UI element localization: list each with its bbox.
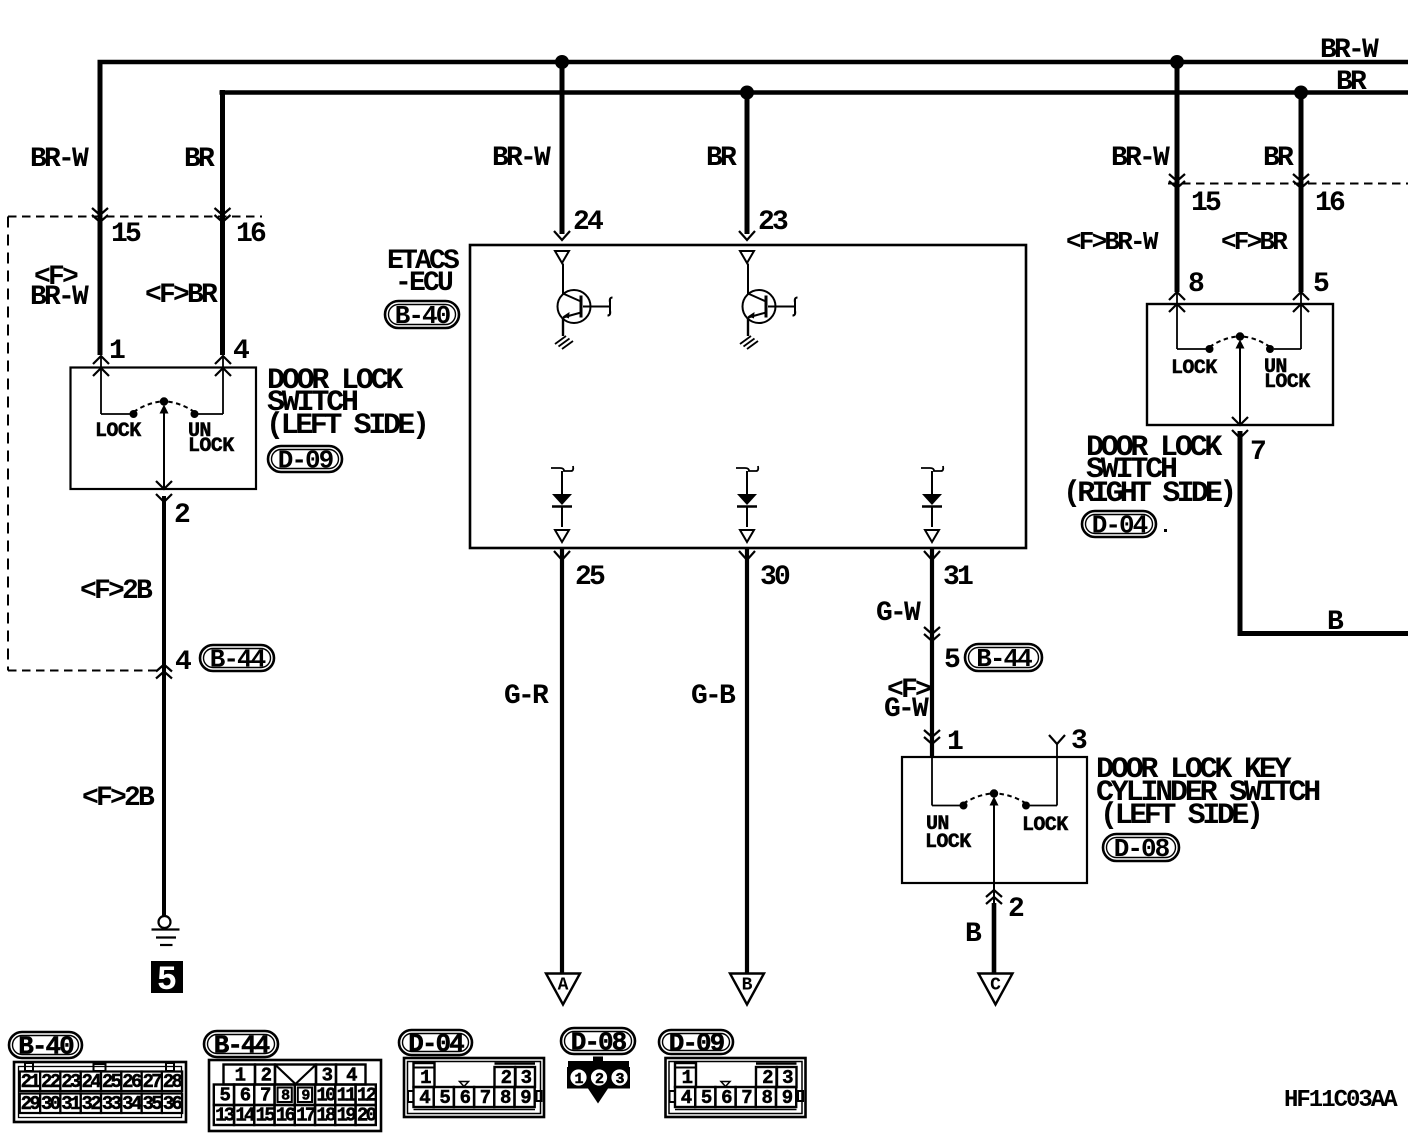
svg-text:16: 16 [276, 1105, 296, 1127]
svg-text:34: 34 [122, 1093, 142, 1115]
svg-text:29: 29 [21, 1093, 41, 1115]
svg-text:2: 2 [595, 1071, 604, 1088]
svg-text:BR-W: BR-W [1111, 143, 1170, 174]
wire 24 end fork [554, 231, 570, 240]
connector D-08 pin diagram [567, 1057, 630, 1104]
connector ref B-40 oval (bottom) [9, 1032, 82, 1062]
key switch wire pin3 internal [1030, 805, 1057, 807]
svg-text:23: 23 [758, 207, 788, 238]
svg-text:<F>BR: <F>BR [145, 280, 218, 311]
connector crossing 4 B-44 [156, 665, 172, 679]
right switch wire pin5 internal [1300, 292, 1302, 349]
key switch dashed arc left [964, 794, 992, 804]
connector ref D-08 oval [1103, 834, 1179, 864]
svg-text:13: 13 [215, 1105, 235, 1127]
connector ref D-08 oval (bottom) [561, 1028, 635, 1058]
svg-text:G-W: G-W [876, 598, 921, 629]
connector ref D-09 oval (bottom) [659, 1029, 733, 1059]
svg-text:LOCK: LOCK [925, 831, 971, 854]
svg-text:2: 2 [1008, 894, 1024, 925]
ETACS-ECU box B-40 [470, 245, 1026, 548]
svg-text:G-R: G-R [504, 681, 549, 712]
svg-text:1: 1 [109, 336, 125, 367]
pin 25 exit fork [554, 551, 570, 560]
svg-text:B-44: B-44 [210, 645, 266, 675]
transistor Q1 [555, 264, 613, 350]
svg-text:28: 28 [163, 1071, 183, 1093]
right switch LOCK contact dot [1206, 345, 1214, 353]
key switch LOCK contact dot [1022, 802, 1030, 810]
svg-text:(RIGHT SIDE): (RIGHT SIDE) [1063, 477, 1233, 511]
svg-text:27: 27 [142, 1071, 162, 1093]
connector ref B-44 oval (left) [200, 645, 274, 675]
svg-text:BR-W: BR-W [30, 144, 89, 175]
svg-text:35: 35 [142, 1093, 162, 1115]
wire 23 end fork [739, 231, 755, 240]
right switch pole arrow [1236, 340, 1245, 349]
svg-text:1: 1 [574, 1071, 583, 1088]
switch wiper dashed arc left [134, 402, 162, 413]
destination triangle A [546, 974, 580, 1005]
svg-text:LOCK: LOCK [188, 435, 234, 458]
svg-text:BR: BR [184, 144, 215, 175]
pin 30 exit fork [739, 551, 755, 560]
svg-text:4: 4 [175, 647, 191, 678]
switch wiper dashed arc right [167, 402, 195, 413]
wire G-B (pin30 to B) [745, 548, 749, 975]
svg-text:31: 31 [61, 1093, 81, 1115]
svg-text:18: 18 [316, 1105, 336, 1127]
svg-text:C: C [990, 976, 1001, 996]
svg-text:B-40: B-40 [18, 1032, 74, 1062]
right switch pole stem wire [1239, 344, 1241, 425]
key switch dashed arc right [997, 794, 1026, 804]
ground symbol [152, 916, 180, 945]
svg-text:(LEFT SIDE): (LEFT SIDE) [266, 409, 427, 443]
connector crossing 15 right [1169, 174, 1185, 188]
svg-text:30: 30 [760, 562, 790, 593]
svg-text:5: 5 [157, 962, 177, 1000]
switch wire pin4 internal [222, 356, 224, 414]
wire BR-W left drop [98, 60, 103, 355]
pin 3 fork [1049, 735, 1065, 744]
diode D3 [921, 466, 943, 542]
svg-text:D-08: D-08 [1114, 834, 1170, 864]
junction dot bus1/wire24 [555, 55, 569, 69]
switch pole stem wire [163, 409, 165, 489]
connector ref D-04 oval (bottom) [399, 1029, 472, 1059]
svg-text:BR: BR [1263, 143, 1294, 174]
connector crossing pin1 D-08 [924, 730, 940, 744]
svg-text:24: 24 [82, 1071, 102, 1093]
switch LOCK contact dot [130, 410, 138, 418]
door lock switch (right side) box [1147, 304, 1333, 425]
speck after D-04 oval [1164, 529, 1167, 532]
wire BR left drop [220, 90, 225, 355]
svg-text:7: 7 [1250, 437, 1265, 468]
svg-text:(LEFT SIDE): (LEFT SIDE) [1100, 799, 1261, 833]
svg-text:3: 3 [615, 1071, 624, 1088]
diode D2 [736, 466, 758, 542]
svg-text:HF11C03AA: HF11C03AA [1284, 1087, 1398, 1114]
svg-text:D-09: D-09 [278, 446, 334, 476]
key switch common pole dot [990, 789, 998, 797]
dashed boundary lower-left horizontal [8, 670, 158, 672]
svg-text:30: 30 [41, 1093, 61, 1115]
svg-text:1: 1 [947, 727, 963, 758]
diode D1 [551, 466, 573, 542]
pin 23 male triangle [740, 251, 754, 263]
svg-text:21: 21 [21, 1071, 41, 1093]
junction dot bus1/right [1170, 55, 1184, 69]
svg-text:25: 25 [575, 562, 605, 593]
svg-text:31: 31 [943, 562, 973, 593]
svg-text:D-09: D-09 [669, 1029, 725, 1059]
connector D-04 pin diagram [404, 1058, 544, 1117]
svg-text:<F>BR-W: <F>BR-W [1066, 227, 1159, 257]
svg-text:G-W: G-W [884, 694, 929, 725]
wire BR-W main bus [98, 60, 1408, 65]
svg-text:19: 19 [337, 1105, 357, 1127]
switch UNLOCK contact dot [191, 410, 199, 418]
wire 24 drop BR-W [560, 62, 565, 234]
svg-text:B-44: B-44 [976, 644, 1032, 674]
svg-text:BR-W: BR-W [1320, 35, 1379, 66]
svg-text:BR-W: BR-W [492, 143, 551, 174]
right switch common pole dot [1236, 332, 1244, 340]
svg-text:12: 12 [357, 1085, 377, 1107]
svg-text:36: 36 [163, 1093, 183, 1115]
dashed boundary top-left horizontal [8, 216, 262, 218]
svg-text:24: 24 [573, 207, 603, 238]
svg-text:BR: BR [706, 143, 737, 174]
svg-text:10: 10 [316, 1085, 336, 1107]
svg-text:BR-W: BR-W [30, 282, 89, 313]
svg-text:25: 25 [102, 1071, 122, 1093]
pin 24 male triangle [555, 251, 569, 263]
junction dot bus2/wire23 [740, 86, 754, 100]
connector crossing 16 right [1293, 174, 1309, 188]
svg-text:8: 8 [1188, 269, 1204, 300]
wire 23 drop BR [745, 93, 750, 235]
switch common pole dot [160, 397, 168, 405]
connector ref B-44 oval (mid) [965, 644, 1042, 674]
svg-text:15: 15 [111, 219, 141, 250]
switch pole arrow [160, 405, 169, 414]
pin 2 exit mark [156, 481, 172, 502]
pin 3 stub wire [1056, 744, 1058, 806]
svg-text:4: 4 [233, 336, 249, 367]
junction dot bus2/right [1294, 86, 1308, 100]
svg-text:33: 33 [102, 1093, 122, 1115]
right switch dashed arc left [1210, 337, 1238, 348]
svg-text:17: 17 [296, 1105, 316, 1127]
svg-text:15: 15 [256, 1105, 276, 1127]
svg-text:B: B [742, 976, 753, 996]
dashed boundary right horizontal [1168, 183, 1408, 185]
svg-text:<F>2B: <F>2B [82, 783, 155, 814]
pin 31 exit fork [924, 551, 940, 560]
svg-text:<F>2B: <F>2B [80, 576, 153, 607]
right switch wire pin8 internal [1176, 292, 1178, 349]
key switch UNLOCK contact dot [960, 802, 968, 810]
wire BR right drop [1299, 93, 1304, 293]
destination triangle C [979, 974, 1013, 1005]
connector ref D-09 oval [268, 446, 342, 476]
svg-text:LOCK: LOCK [95, 420, 141, 443]
wire pin7 to B (L-shape) [1240, 431, 1408, 634]
wire BR main bus [220, 90, 1408, 95]
connector ref B-40 oval (ETACS) [385, 301, 459, 331]
svg-text:5: 5 [1313, 269, 1329, 300]
pin 5 entry mark [1293, 292, 1309, 312]
wire BR-W right drop [1175, 62, 1180, 292]
connector ref B-44 oval (bottom) [204, 1031, 278, 1061]
svg-text:26: 26 [122, 1071, 142, 1093]
wire B (pin2 to C) [992, 903, 997, 975]
svg-text:D-04: D-04 [408, 1029, 464, 1059]
wire G-W (pin31 upper) [930, 548, 934, 757]
door lock switch (left side) box [71, 368, 257, 490]
svg-text:D-04: D-04 [1092, 511, 1148, 541]
svg-text:LOCK: LOCK [1264, 371, 1310, 394]
wire G-R (pin25 to A) [560, 548, 564, 975]
connector crossing on wire 15 [92, 208, 108, 222]
svg-text:15: 15 [1191, 188, 1221, 219]
key switch pole arrow [990, 797, 999, 806]
connector crossing 5 B-44 (wire31) [924, 627, 940, 641]
svg-text:5: 5 [944, 645, 960, 676]
switch wire pin1 internal [100, 356, 102, 414]
connector crossing on wire 16 [215, 208, 231, 222]
pin 8 entry mark [1169, 292, 1185, 312]
svg-text:23: 23 [61, 1071, 81, 1093]
svg-text:A: A [558, 976, 569, 996]
svg-text:-ECU: -ECU [395, 268, 453, 299]
svg-text:11: 11 [337, 1085, 357, 1107]
svg-text:14: 14 [235, 1105, 255, 1127]
svg-text:LOCK: LOCK [1022, 814, 1068, 837]
svg-text:D-08: D-08 [571, 1028, 627, 1058]
svg-text:16: 16 [1315, 188, 1345, 219]
destination triangle B [730, 974, 764, 1005]
svg-text:<F>BR: <F>BR [1221, 227, 1288, 257]
svg-text:LOCK: LOCK [1171, 357, 1217, 380]
svg-text:BR: BR [1336, 67, 1367, 98]
key switch wire pin1 internal [931, 757, 933, 806]
pin 2 exit mark (key switch) [993, 883, 995, 904]
ground ref 5 black box [151, 961, 183, 1000]
svg-text:2: 2 [174, 500, 190, 531]
svg-text:16: 16 [236, 219, 266, 250]
pin 4 entry mark [215, 356, 231, 376]
connector ref D-04 oval [1082, 511, 1156, 541]
dashed boundary left vertical [7, 217, 9, 671]
pin 7 exit mark [1232, 417, 1248, 438]
svg-text:B-40: B-40 [395, 301, 451, 331]
key switch pole stem wire [993, 801, 995, 883]
svg-text:22: 22 [41, 1071, 61, 1093]
connector B-44 pin diagram [209, 1060, 381, 1131]
svg-text:32: 32 [82, 1093, 102, 1115]
right switch UNLOCK contact dot [1266, 345, 1274, 353]
pin 1 entry mark [93, 356, 109, 376]
right switch dashed arc right [1243, 337, 1270, 348]
connector B-40 pin diagram [14, 1062, 186, 1122]
svg-text:G-B: G-B [691, 681, 736, 712]
wire <F>2B upper segment [162, 496, 166, 916]
connector D-09 pin diagram [666, 1058, 806, 1117]
svg-text:B-44: B-44 [214, 1031, 270, 1061]
svg-text:20: 20 [357, 1105, 377, 1127]
svg-text:3: 3 [1071, 726, 1087, 757]
transistor Q2 [740, 264, 798, 350]
door lock key cylinder switch box [902, 757, 1087, 883]
